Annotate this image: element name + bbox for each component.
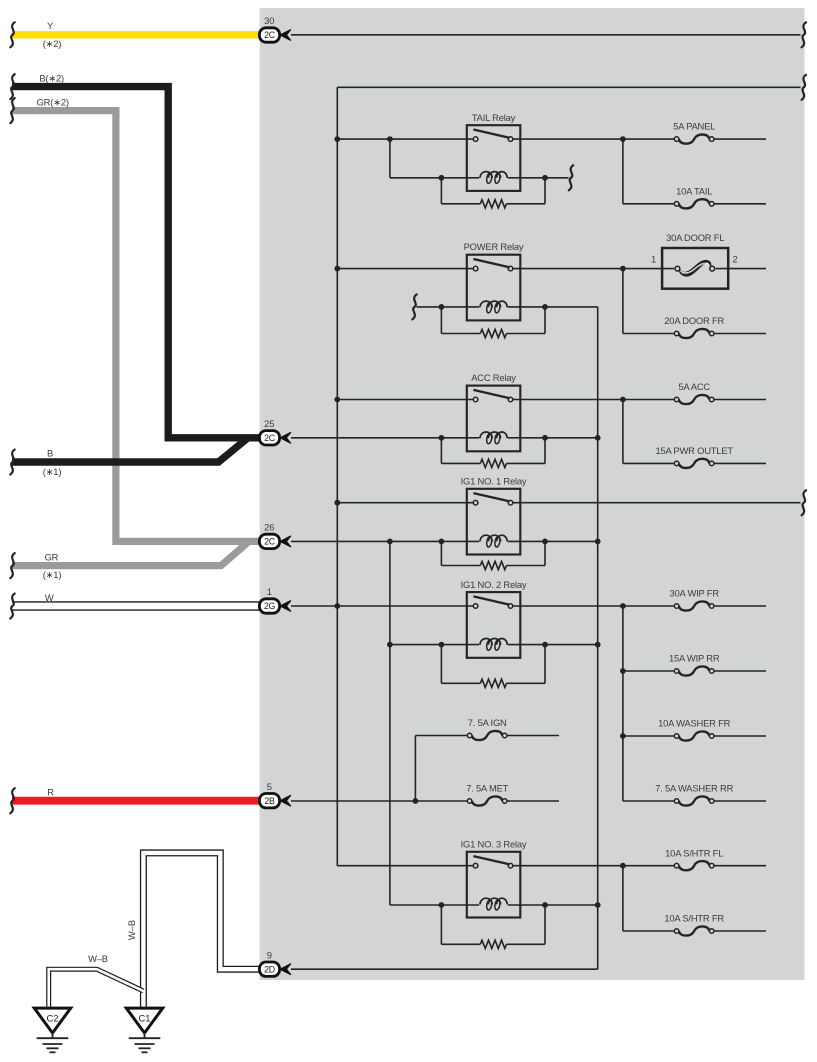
node junction at 597.7,541.4 (595, 539, 601, 545)
svg-text:10A WASHER FR: 10A WASHER FR (658, 718, 730, 729)
fuse 15A WIP RR (674, 668, 715, 674)
break symbol left end of wire Y (10, 22, 14, 47)
svg-text:GR(∗2): GR(∗2) (37, 97, 69, 108)
wire vertical 10A S/HTR FL to FR (622, 866, 624, 931)
fuse 7. 5A WASHER RR (674, 798, 715, 804)
arrowhead at 2G pin 1 (280, 600, 291, 611)
wire ACC switch / 5A ACC row (337, 399, 766, 401)
arrowhead at 2D pin 9 (280, 964, 291, 975)
node junction at 337.3,606 (334, 603, 340, 609)
wire right vertical x597.7 POWER coil down to bottom row (597, 307, 599, 969)
resistor of ACC Relay (441, 438, 545, 467)
break symbol left end of wire GR(*1) (10, 553, 14, 578)
wire top feed row y87 to right break (337, 86, 800, 88)
node junction at 545,437.8 (542, 435, 548, 441)
connector 2C pin 25 (259, 431, 279, 445)
svg-text:Y: Y (47, 20, 54, 31)
resistor of POWER Relay (441, 307, 545, 337)
node junction at 622.9,399.5 (620, 397, 626, 403)
connector 2C pin 26 (259, 534, 279, 548)
node junction at 597.7,905 (595, 902, 601, 908)
node junction at 441.4,541.4 (439, 539, 445, 545)
fuse 30A WIP FR (674, 603, 715, 609)
wire 10A WASHER FR fuse row (623, 735, 766, 737)
ground C1 (126, 1008, 162, 1052)
wire GR(*2) gray (12, 111, 260, 542)
relay ACC Relay (467, 386, 521, 452)
connector 2B pin 5 (259, 794, 279, 808)
arrowhead at 2C pin 25 (280, 432, 291, 443)
node junction at 441.4,177.8 (439, 175, 445, 181)
node junction at 337.3,399.5 (334, 397, 340, 403)
node junction at 597.7,437.8 (595, 435, 601, 441)
wire bottom row from connector 9/2D to right vertical (291, 968, 598, 970)
node junction at 597.7,644.6 (595, 642, 601, 648)
break symbol left end of wire W (10, 594, 14, 619)
wire vertical 5A ACC to 15A PWR OUTLET (622, 400, 624, 464)
svg-text:1: 1 (651, 254, 656, 265)
wire R red to 5/2B (12, 797, 260, 805)
wire IG1 NO.3 coil row (390, 904, 598, 906)
break symbol left end of wire R (10, 788, 14, 813)
svg-text:2D: 2D (264, 964, 275, 974)
fuse 15A PWR OUTLET (674, 460, 715, 466)
wire vertical 5A PANEL to 10A TAIL (622, 139, 624, 204)
wire IG1 NO.1 coil row from connector 26/2C (291, 540, 598, 542)
wire 15A WIP RR fuse row (623, 670, 766, 672)
wire main trunk vertical x337 with corner into IG1 NO.3 switch row (336, 87, 338, 865)
fuse 7. 5A IGN (467, 732, 508, 738)
svg-text:15A WIP RR: 15A WIP RR (669, 653, 720, 664)
break symbol right end of 30/2C row (802, 22, 806, 47)
node junction at 545,644.6 (542, 642, 548, 648)
svg-text:5: 5 (267, 781, 272, 792)
junction block background panel (260, 8, 805, 980)
svg-text:2B: 2B (264, 796, 275, 806)
svg-text:5A PANEL: 5A PANEL (673, 121, 715, 132)
svg-text:5A ACC: 5A ACC (678, 381, 710, 392)
node junction at 622.9,139.1 (620, 136, 626, 142)
svg-text:W–B: W–B (88, 953, 108, 964)
wire 15A PWR OUTLET fuse row (623, 462, 766, 464)
wire IG1 NO.2 coil row (390, 644, 598, 646)
connector 2C pin 30 (259, 28, 279, 42)
svg-text:(∗1): (∗1) (43, 466, 62, 477)
fusible link 30A DOOR FL (662, 248, 728, 289)
svg-text:25: 25 (264, 418, 274, 429)
node junction at 337.3,268.6 (334, 266, 340, 272)
node junction at 389.9,139.1 (387, 136, 393, 142)
node junction at 441.4,437.8 (439, 435, 445, 441)
break symbol left end of wire B(*2) (10, 74, 14, 99)
svg-text:W–B: W–B (126, 920, 137, 940)
fuse 10A S/HTR FL (674, 863, 715, 869)
relay IG1 NO. 3 Relay (467, 852, 521, 918)
svg-text:POWER Relay: POWER Relay (464, 241, 524, 252)
node junction at 622.9,736 (620, 733, 626, 739)
svg-text:10A TAIL: 10A TAIL (676, 185, 712, 196)
wire vertical x389.9 TAIL switch to TAIL coil (389, 139, 391, 178)
wire TAIL coil row to right break (390, 177, 569, 179)
svg-text:15A PWR OUTLET: 15A PWR OUTLET (655, 445, 733, 456)
svg-text:30: 30 (264, 15, 274, 26)
svg-text:7. 5A IGN: 7. 5A IGN (468, 717, 507, 728)
fuse 20A DOOR FR (674, 330, 715, 336)
wire Y yellow to 30/2C (12, 31, 260, 38)
node junction at 545,905 (542, 902, 548, 908)
wire POWER switch / 30A DOOR FL row (337, 268, 766, 270)
arrowhead at 2C pin 30 (280, 29, 291, 40)
svg-text:IG1 NO. 1 Relay: IG1 NO. 1 Relay (461, 476, 527, 487)
svg-text:B(∗2): B(∗2) (39, 73, 64, 84)
wire 7.5A IGN fuse row (415, 735, 559, 737)
wire from connector 30/2C to right break (291, 34, 801, 36)
svg-text:7. 5A WASHER RR: 7. 5A WASHER RR (655, 783, 733, 794)
svg-text:2C: 2C (264, 537, 276, 547)
resistor of TAIL Relay (441, 178, 545, 208)
wire IG1 NO.1 switch row to right break (337, 502, 800, 504)
svg-text:7. 5A MET: 7. 5A MET (466, 783, 508, 794)
svg-text:10A S/HTR FR: 10A S/HTR FR (664, 913, 724, 924)
wire B(*2) black (12, 87, 260, 438)
svg-text:B: B (47, 448, 53, 459)
wire GR(*1) gray diagonal join (12, 541, 249, 565)
svg-text:(∗1): (∗1) (43, 569, 62, 580)
wire POWER coil row from left break to right vertical (417, 306, 598, 308)
wire TAIL switch / 5A PANEL row (337, 138, 766, 140)
svg-text:W: W (45, 592, 54, 603)
svg-text:2: 2 (732, 254, 737, 265)
ground C2 (34, 1008, 70, 1052)
svg-text:GR: GR (45, 552, 59, 563)
wire 10A S/HTR FR fuse row (623, 930, 766, 932)
relay TAIL Relay (467, 125, 521, 191)
fuse 5A PANEL (674, 136, 715, 142)
resistor of IG1 NO. 3 Relay (441, 904, 545, 948)
wire 20A DOOR FR fuse row (623, 333, 766, 335)
node junction at 441.4,905 (439, 902, 445, 908)
break symbol right end of top feed row (802, 75, 806, 100)
arrowhead at 2B pin 5 (280, 795, 291, 806)
wire W-B branch to ground C2 (49, 969, 144, 1008)
wire IG1 NO.3 switch / 10A S/HTR FL row (337, 865, 766, 867)
break symbol right end of IG1 NO.1 switch row (802, 490, 806, 515)
wire vertical x389.9 from IG1 NO.1 coil down to IG1 NO.3 coil corner (389, 541, 391, 905)
wire W white outlined (12, 601, 260, 611)
wire vertical 30A WIP FR down to 7.5A WASHER RR (622, 606, 624, 801)
node junction at 622.9,606 (620, 603, 626, 609)
fuse 10A TAIL (674, 201, 715, 207)
fuse 10A WASHER FR (674, 733, 715, 739)
svg-text:1: 1 (267, 586, 272, 597)
svg-text:30A WIP FR: 30A WIP FR (669, 588, 719, 599)
wire vertical 7.5A IGN to MET row (414, 736, 416, 802)
node junction at 441.4,306.9 (439, 304, 445, 310)
wire 7.5A MET row from connector 5/2B (291, 800, 559, 802)
wire IG1 NO.2 switch / 30A WIP FR row from connector 1/2G (291, 605, 766, 607)
svg-text:2C: 2C (264, 433, 276, 443)
wire B(*1) black diagonal join (12, 438, 248, 462)
svg-text:TAIL Relay: TAIL Relay (472, 112, 516, 123)
wire 10A TAIL fuse row (623, 203, 766, 205)
wire W-B from 9/2D to ground C1 (143, 853, 259, 1009)
relay POWER Relay (467, 255, 521, 321)
break symbol left end of wire B(*1) (10, 450, 14, 475)
svg-text:ACC Relay: ACC Relay (471, 372, 516, 383)
svg-text:R: R (47, 787, 54, 798)
fuse 5A ACC (674, 396, 715, 402)
svg-text:9: 9 (267, 949, 272, 960)
connector 2D pin 9 (259, 962, 279, 976)
svg-text:20A DOOR FR: 20A DOOR FR (664, 315, 724, 326)
node junction at 389.9,644.6 (387, 642, 393, 648)
svg-text:26: 26 (264, 522, 274, 533)
resistor of IG1 NO. 2 Relay (441, 645, 545, 688)
break symbol left end of POWER coil row (412, 294, 416, 319)
node junction at 389.9,541.4 (387, 539, 393, 545)
wire vertical 30A DOOR FL to 20A DOOR FR (622, 269, 624, 334)
svg-text:2C: 2C (264, 30, 276, 40)
break symbol left end of wire GR(*2) (10, 98, 14, 123)
node junction at 415.4,801 (413, 798, 419, 804)
svg-text:IG1 NO. 3 Relay: IG1 NO. 3 Relay (461, 839, 527, 850)
svg-text:(∗2): (∗2) (43, 38, 62, 49)
arrowhead at 2C pin 26 (280, 536, 291, 547)
wire ACC coil row from connector 25/2C (291, 437, 598, 439)
connector 2G pin 1 (259, 599, 279, 613)
node junction at 545,177.8 (542, 175, 548, 181)
svg-text:C2: C2 (47, 1013, 59, 1024)
resistor of IG1 NO. 1 Relay (441, 541, 545, 569)
svg-text:IG1 NO. 2 Relay: IG1 NO. 2 Relay (461, 579, 527, 590)
svg-text:2G: 2G (264, 601, 276, 611)
node junction at 337.3,502.7 (334, 500, 340, 506)
svg-text:10A S/HTR FL: 10A S/HTR FL (665, 847, 723, 858)
node junction at 441.4,644.6 (439, 642, 445, 648)
node junction at 622.9,268.6 (620, 266, 626, 272)
break symbol right end of TAIL coil row (569, 165, 573, 190)
node junction at 622.9,865.7 (620, 863, 626, 869)
svg-text:30A DOOR FL: 30A DOOR FL (666, 232, 724, 243)
node junction at 337.3,139.1 (334, 136, 340, 142)
svg-text:C1: C1 (139, 1013, 151, 1024)
relay IG1 NO. 2 Relay (467, 592, 521, 658)
node junction at 622.9,671 (620, 668, 626, 674)
node junction at 545,541.4 (542, 539, 548, 545)
fuse 7. 5A MET (467, 798, 508, 804)
wire 7.5A WASHER RR fuse row (623, 800, 766, 802)
relay IG1 NO. 1 Relay (467, 489, 521, 555)
node junction at 545,306.9 (542, 304, 548, 310)
fuse 10A S/HTR FR (674, 928, 715, 934)
